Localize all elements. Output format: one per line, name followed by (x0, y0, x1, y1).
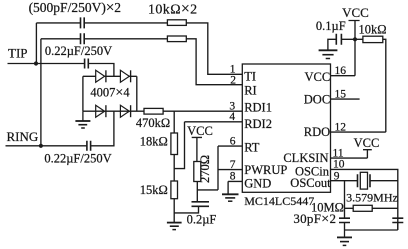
pin 15 DOC (304, 88, 346, 106)
wire RT riser (217, 146, 219, 190)
diode D1 top-left 4007 (96, 70, 106, 82)
label 18kOhm (140, 135, 168, 149)
resistor R4 18k (171, 133, 178, 155)
capacitor C3 0.2uF (174, 202, 209, 213)
svg-text:30pF×2: 30pF×2 (293, 211, 336, 227)
svg-text:RDO: RDO (304, 125, 330, 139)
wire OSCout riser (344, 181, 346, 219)
wire RING line (6, 145, 87, 147)
svg-text:8: 8 (230, 171, 236, 183)
svg-text:7: 7 (230, 159, 236, 171)
label MC14LC5447 (244, 194, 314, 208)
wire R1 to pin1 (186, 23, 242, 74)
capacitor C5 30pF left (339, 218, 350, 230)
svg-text:VCC: VCC (342, 5, 369, 20)
wire divider riser (173, 111, 175, 222)
svg-text:VCC: VCC (354, 136, 380, 150)
ground bridge-left (75, 111, 90, 128)
wire TIP line (8, 63, 85, 65)
label (500pF/250V)x2 (29, 0, 121, 16)
svg-text:DOC: DOC (304, 92, 330, 106)
svg-text:0.2µF: 0.2µF (187, 212, 217, 226)
svg-text:18kΩ: 18kΩ (140, 135, 168, 149)
wire pin7 lead (218, 169, 242, 171)
wire RDI2 drop connector (174, 122, 184, 169)
svg-text:PWRUP: PWRUP (244, 163, 287, 177)
label 30pFx2 (293, 211, 336, 227)
wire 500pF line 2 (41, 38, 167, 40)
wire bridge right edge (136, 76, 138, 111)
power VCC top-right (342, 5, 369, 76)
pin 6 RT (230, 135, 260, 154)
wire 500pF line 1 (36, 22, 167, 24)
svg-text:470kΩ: 470kΩ (136, 116, 170, 130)
svg-text:4: 4 (229, 111, 235, 123)
ground oscillator (337, 230, 352, 245)
pin 4 RDI2 (229, 111, 272, 131)
capacitor C4 0.1uF (328, 34, 355, 50)
svg-text:CLKSIN: CLKSIN (283, 151, 328, 165)
label 4007x4 (90, 85, 130, 100)
capacitor C6 30pF right (392, 218, 403, 230)
svg-text:MC14LC5447: MC14LC5447 (244, 194, 314, 208)
node junction dot TIP (34, 61, 38, 65)
label 3.579MHz (346, 191, 398, 205)
pin 3 RDI1 (229, 100, 272, 114)
wire bridge top row (83, 75, 137, 77)
label 470kOhm (136, 116, 170, 130)
svg-text:RI: RI (244, 84, 257, 98)
resistor R8 10M (345, 205, 398, 211)
diode D2 top-right 4007 (120, 70, 130, 82)
label 0.22uF/250V (RING) (44, 152, 111, 166)
wire pin9 lead OSCout (331, 180, 358, 182)
svg-text:3.579MHz: 3.579MHz (346, 191, 398, 205)
capacitor 0.22uF/250V (RING) (87, 141, 91, 151)
label 10MOhm (311, 200, 344, 214)
svg-text:VCC: VCC (187, 124, 213, 138)
svg-text:0.22µF/250V: 0.22µF/250V (44, 152, 111, 166)
pin 12 RDO (304, 122, 346, 139)
svg-text:RDI2: RDI2 (244, 117, 272, 131)
diode D4 bottom-right 4007 (120, 105, 130, 117)
node TIP (8, 46, 28, 61)
node junction dot RING (39, 144, 43, 148)
wire riser RING to wire2 (40, 39, 42, 146)
wire pin12 lead (331, 131, 386, 133)
svg-text:10kΩ: 10kΩ (358, 22, 386, 36)
label 270Ohm (rotated) (198, 155, 212, 183)
label 0.22uF/250V (TIP) (45, 44, 112, 58)
svg-text:(500pF/250V)×2: (500pF/250V)×2 (29, 0, 121, 16)
capacitor C2 500pF (81, 33, 85, 44)
svg-text:270Ω: 270Ω (198, 155, 212, 183)
resistor R7 10k (355, 36, 386, 132)
svg-text:RT: RT (244, 140, 260, 154)
pin 10 OSCin (295, 159, 345, 179)
op-amp U1 MC14LC5447 chip body (242, 64, 330, 192)
ground chip GND (222, 194, 239, 201)
resistor R6 270 (194, 162, 201, 182)
diode D3 bottom-left 4007 (96, 105, 106, 117)
node RING (7, 129, 39, 144)
svg-text:0.22µF/250V: 0.22µF/250V (45, 44, 112, 58)
svg-text:GND: GND (244, 177, 271, 191)
label 0.1uF (316, 19, 346, 33)
svg-text:RDI1: RDI1 (244, 101, 272, 115)
wire pin16 lead (331, 75, 356, 77)
svg-text:TIP: TIP (8, 46, 28, 61)
resistor R2 10k (167, 36, 186, 42)
wire 270 bottom node (197, 182, 218, 202)
label 10kOhm x2 (148, 1, 198, 18)
svg-text:4007×4: 4007×4 (90, 85, 130, 100)
pin 1 TI (230, 64, 256, 84)
wire pin8 lead (228, 181, 242, 194)
wire RING cap to bridge bottom mid (91, 111, 114, 146)
ground divider bottom (167, 223, 182, 230)
pin 16 VCC (304, 65, 346, 84)
svg-text:2: 2 (230, 75, 236, 87)
wire bridge left edge (82, 76, 84, 111)
wire riser TIP to wire1 (35, 23, 37, 64)
pin 9 OSCout (290, 170, 339, 190)
wire pin6 lead (218, 145, 242, 147)
wire TIP cap to bridge top mid (88, 64, 114, 77)
crystal Y1 3.579MHz (358, 172, 398, 189)
svg-text:15kΩ: 15kΩ (140, 183, 168, 197)
wire pin4 lead (185, 121, 243, 123)
svg-text:0.1µF: 0.1µF (316, 19, 346, 33)
pin 7 PWRUP (230, 159, 288, 177)
capacitor C1 500pF (81, 17, 85, 28)
svg-text:OSCout: OSCout (290, 176, 331, 190)
resistor R1 10k (167, 20, 186, 26)
label 10kOhm (pull-up) (358, 22, 386, 36)
resistor R3 470k (144, 108, 163, 114)
label 0.2uF (187, 212, 217, 226)
wire R2 to pin2 (186, 39, 242, 85)
pin 11 CLKSIN (283, 148, 343, 166)
svg-text:RING: RING (7, 129, 39, 144)
power VCC right-mid (354, 136, 380, 158)
pin 2 RI (230, 75, 256, 98)
wire pin10 lead OSCin (331, 169, 398, 230)
power VCC mid (187, 124, 213, 162)
svg-text:10kΩ×2: 10kΩ×2 (148, 1, 198, 18)
node junction dot VCC (353, 37, 357, 41)
resistor R5 15k (171, 181, 178, 199)
wire oscillator bottom rail (345, 229, 398, 231)
svg-text:VCC: VCC (304, 70, 330, 84)
wire pin15 stub (331, 98, 360, 100)
wire pin11 lead (331, 157, 368, 159)
ground top-right (319, 50, 338, 58)
svg-text:TI: TI (244, 70, 256, 84)
capacitor 0.22uF/250V (TIP) (85, 59, 89, 69)
pin 8 GND (230, 171, 272, 191)
label 15kOhm (140, 183, 168, 197)
wire bottom row to chip pin3 (83, 110, 242, 112)
svg-text:6: 6 (230, 135, 236, 147)
